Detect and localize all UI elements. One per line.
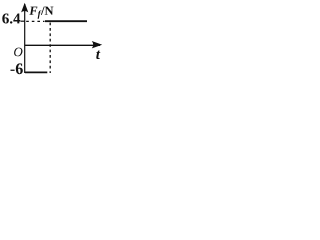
y-axis arrowhead [21, 3, 28, 13]
label O (origin) [14, 48, 22, 57]
graph line at -6 for t less than t1 [25, 71, 47, 73]
label t (x-axis title) [96, 51, 100, 60]
x-axis arrowhead [92, 41, 102, 48]
label -6 [11, 63, 23, 74]
vertical dashed line at t1 [49, 23, 51, 73]
y-axis [24, 4, 26, 73]
label Ff/N (y-axis title) [29, 7, 53, 19]
label 6.4 [2, 14, 20, 24]
x-axis [25, 44, 100, 46]
dashed guide at 6.4 level [26, 20, 44, 22]
graph line at 6.4 for t greater than t1 [45, 20, 87, 22]
tick at 6.4 on y-axis [21, 20, 25, 22]
